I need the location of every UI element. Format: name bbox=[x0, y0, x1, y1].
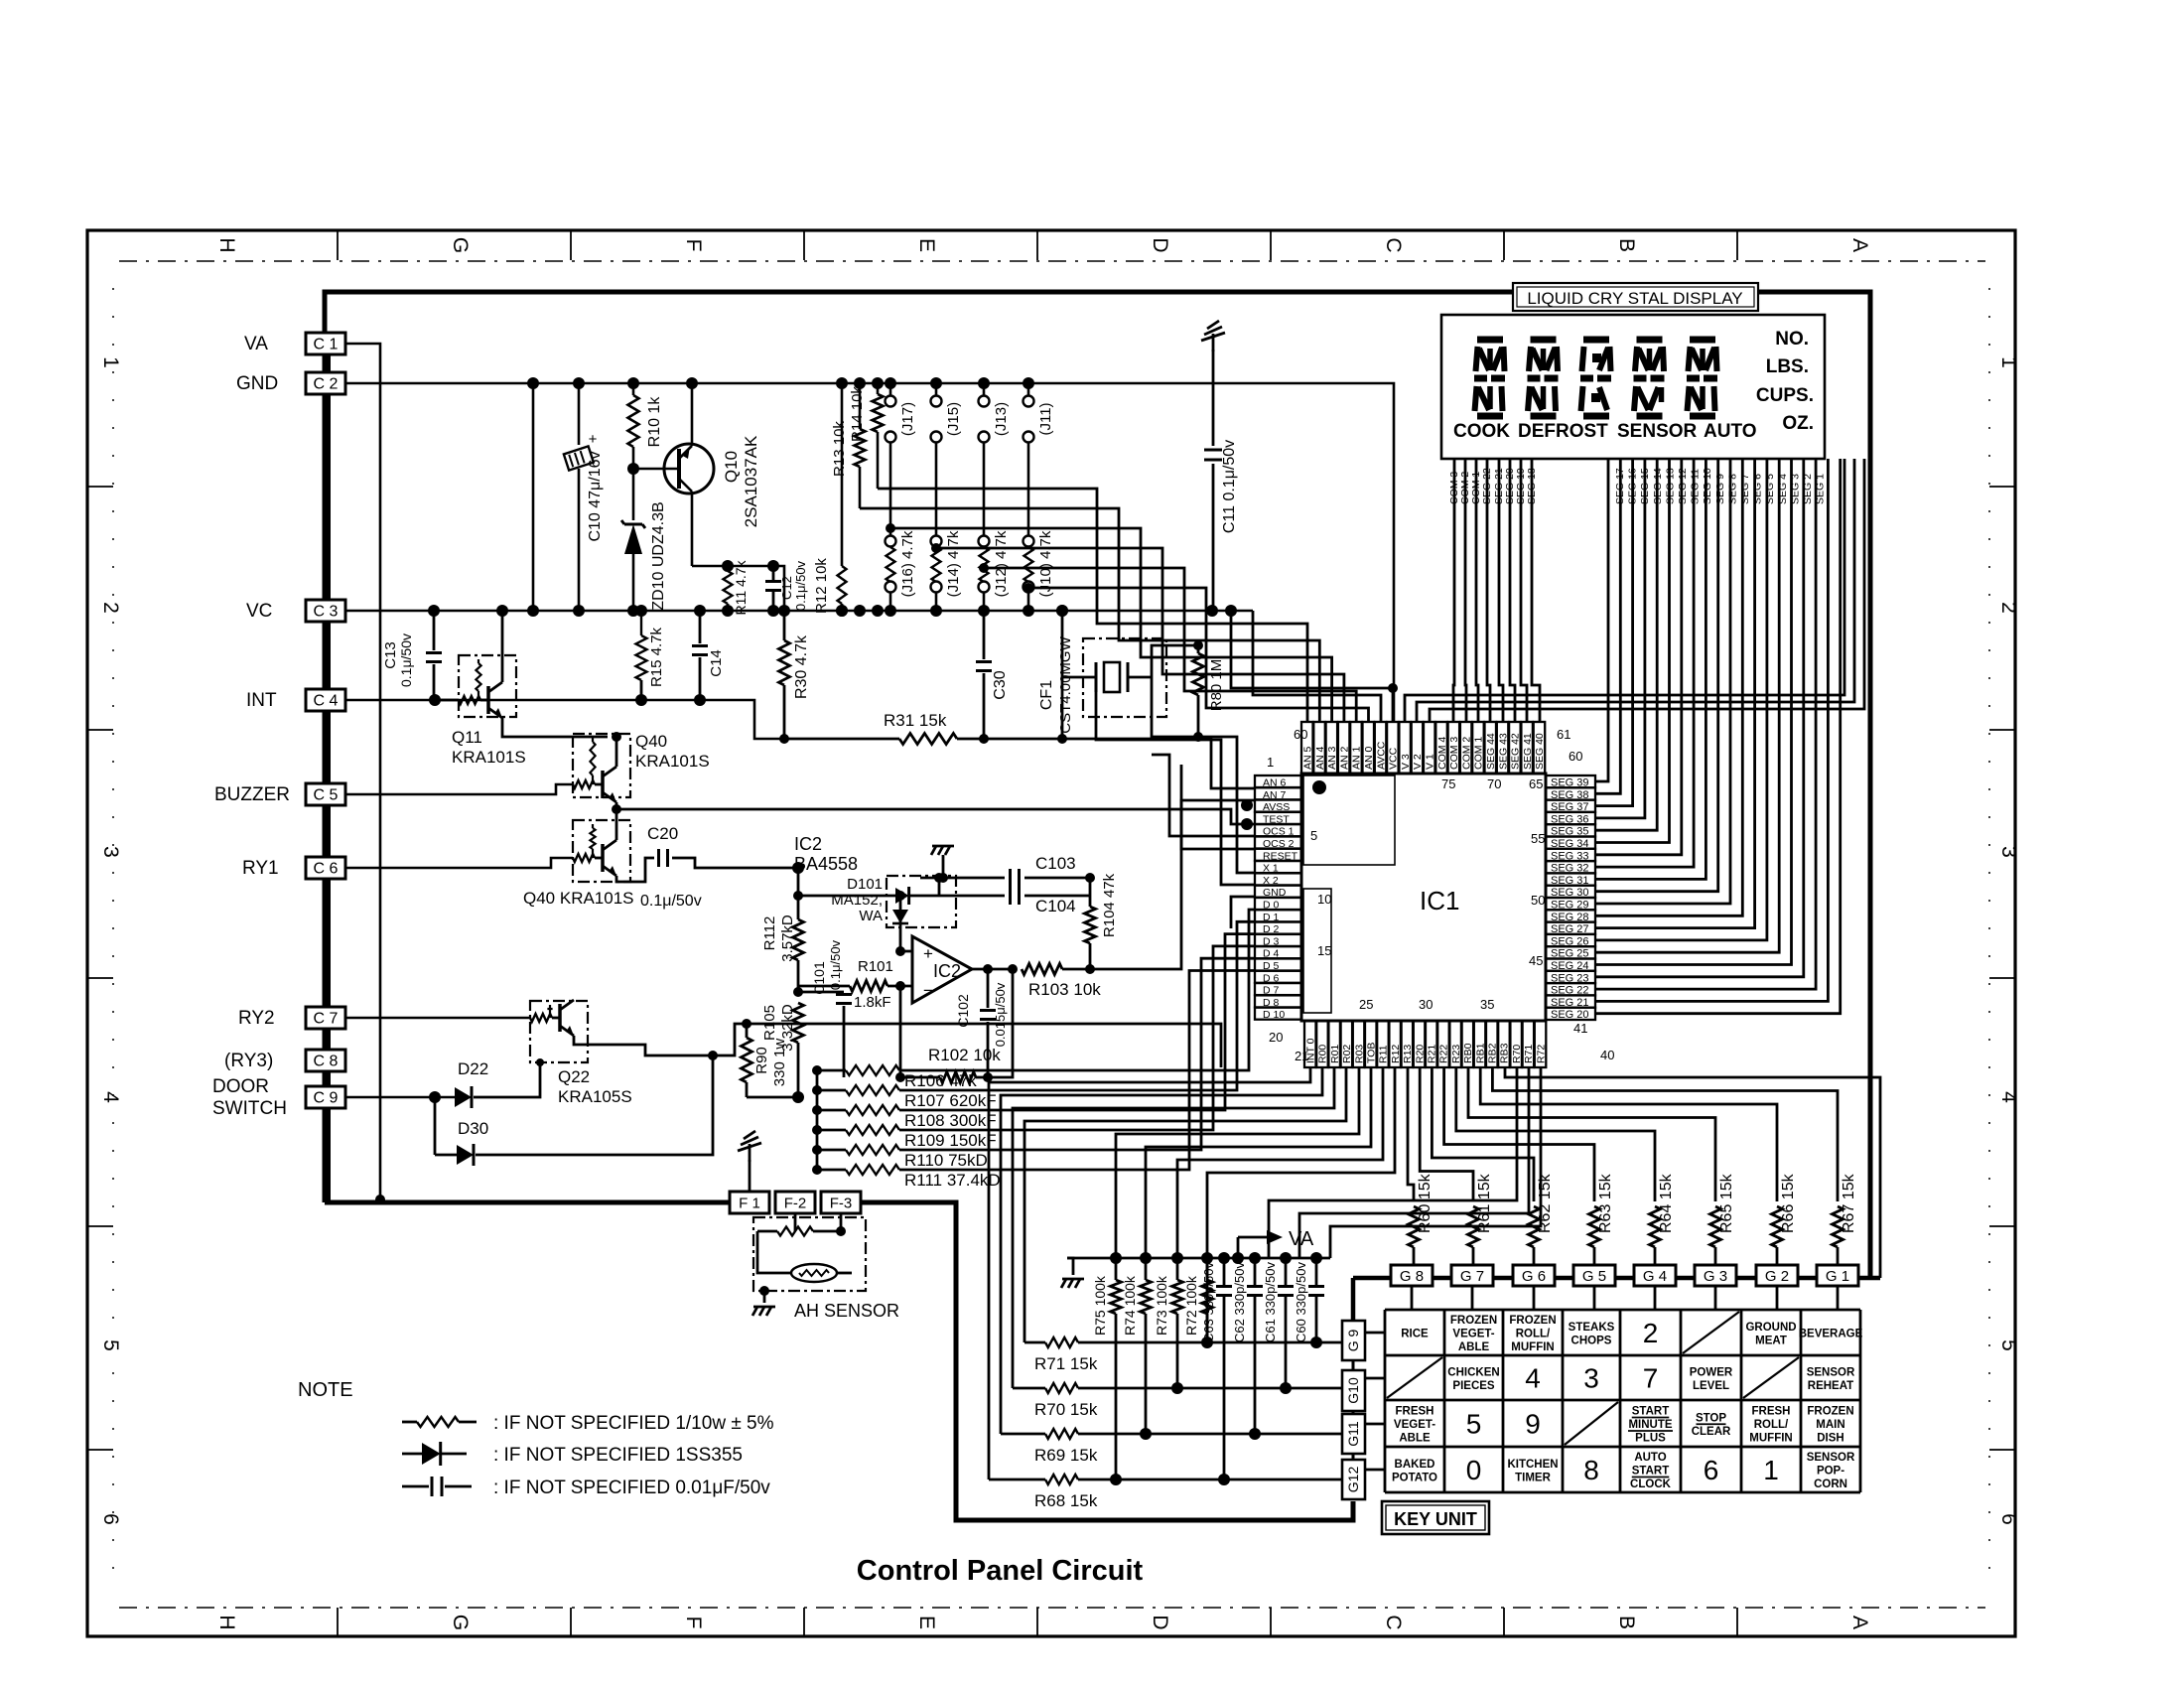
thick bus to key area bbox=[861, 1202, 1353, 1520]
wire VA from C1 bbox=[345, 344, 380, 1199]
svg-text:R106 47k: R106 47k bbox=[904, 1071, 977, 1090]
svg-text:C 7: C 7 bbox=[314, 1011, 339, 1028]
pin SEG 30 bbox=[1546, 886, 1595, 898]
svg-text:D 10: D 10 bbox=[1263, 1009, 1285, 1021]
junction bbox=[686, 377, 698, 389]
junction bbox=[722, 605, 734, 617]
svg-text:: IF NOT SPECIFIED 1/10w ± 5%: : IF NOT SPECIFIED 1/10w ± 5% bbox=[493, 1413, 774, 1434]
svg-text:ROLL/: ROLL/ bbox=[1754, 1419, 1789, 1431]
pin TEST bbox=[1255, 812, 1301, 824]
connector C8 box bbox=[306, 1050, 345, 1071]
svg-text:F: F bbox=[682, 239, 705, 252]
jumper-resistor (J14) 4.7k bbox=[931, 536, 942, 547]
svg-text:C 2: C 2 bbox=[314, 376, 339, 393]
svg-text:CHICKEN: CHICKEN bbox=[1447, 1366, 1499, 1378]
pin INT 0 bbox=[1304, 1021, 1316, 1067]
diode D101 MA152 bbox=[874, 895, 895, 898]
svg-text:SEG 1: SEG 1 bbox=[1815, 474, 1827, 504]
wire IC1 port fan left 6 bbox=[1146, 1067, 1371, 1258]
pin SEG 36 bbox=[1546, 812, 1595, 824]
svg-text:CUPS.: CUPS. bbox=[1756, 385, 1814, 406]
svg-text:C101: C101 bbox=[811, 961, 827, 995]
capacitor C101 bbox=[798, 991, 844, 994]
svg-text:G 3: G 3 bbox=[1704, 1268, 1727, 1285]
svg-text:R109 150kF: R109 150kF bbox=[904, 1131, 997, 1150]
page outer border frame bbox=[87, 230, 2015, 1636]
wire RY2 from C7 bbox=[345, 1017, 530, 1020]
pin R23 bbox=[1449, 1021, 1461, 1067]
zener diode ZD10 UDZ4.3B bbox=[632, 469, 635, 520]
svg-text:C: C bbox=[1382, 1615, 1405, 1629]
svg-text:2: 2 bbox=[99, 602, 122, 614]
svg-text:AH SENSOR: AH SENSOR bbox=[794, 1301, 899, 1321]
pin SEG 31 bbox=[1546, 873, 1595, 885]
svg-text:C62 330p/50v: C62 330p/50v bbox=[1232, 1262, 1247, 1342]
wire IC1 to R63 bbox=[1444, 1067, 1594, 1201]
svg-text:SENSOR: SENSOR bbox=[1807, 1366, 1855, 1378]
svg-text:61: 61 bbox=[1557, 727, 1570, 742]
KEY UNIT label box bbox=[1382, 1501, 1489, 1534]
pin SEG 21 bbox=[1546, 995, 1595, 1007]
svg-text:SEG 2: SEG 2 bbox=[1802, 474, 1814, 504]
svg-text:KITCHEN: KITCHEN bbox=[1507, 1459, 1558, 1471]
svg-text:0.1μ/50v: 0.1μ/50v bbox=[793, 560, 808, 611]
svg-text:SENSOR: SENSOR bbox=[1807, 1452, 1855, 1464]
svg-text:R72: R72 bbox=[1535, 1045, 1547, 1063]
pin dots AVSS TEST bbox=[1241, 799, 1253, 811]
connector C3 box bbox=[306, 600, 345, 622]
svg-text:C 3: C 3 bbox=[314, 604, 339, 621]
resistor R69 15k bbox=[1001, 1433, 1045, 1436]
svg-text:R66 15k: R66 15k bbox=[1780, 1173, 1797, 1233]
grid tick bottom bbox=[803, 1608, 805, 1636]
svg-text:+: + bbox=[923, 944, 933, 963]
svg-text:G 6: G 6 bbox=[1522, 1268, 1546, 1285]
svg-text:Q11: Q11 bbox=[452, 728, 482, 747]
wire R112 node to D101 bbox=[798, 868, 874, 896]
wire D22 to Q22 base node bbox=[474, 1062, 540, 1097]
svg-text:R70 15k: R70 15k bbox=[1034, 1400, 1098, 1419]
connector G 4 bbox=[1634, 1265, 1676, 1286]
wire SEG 27 to LCD bbox=[1595, 459, 1755, 928]
wire D30 right bbox=[476, 1056, 713, 1155]
svg-text:4: 4 bbox=[1525, 1363, 1541, 1394]
svg-text:A: A bbox=[1848, 1616, 1871, 1629]
resistor R90 330 1w bbox=[742, 1019, 751, 1029]
pin SEG 27 bbox=[1546, 922, 1595, 934]
wire SEG 36 to LCD bbox=[1595, 459, 1645, 818]
svg-text:E: E bbox=[915, 1616, 938, 1629]
svg-text:2: 2 bbox=[1643, 1318, 1659, 1348]
svg-text:RB2: RB2 bbox=[1487, 1043, 1499, 1063]
wire LCD SEG 20 bbox=[1510, 459, 1515, 722]
grid tick bottom bbox=[570, 1608, 572, 1636]
svg-text:G11: G11 bbox=[1345, 1421, 1361, 1447]
svg-text:RY1: RY1 bbox=[242, 858, 279, 879]
svg-text:: IF NOT SPECIFIED 1SS355: : IF NOT SPECIFIED 1SS355 bbox=[493, 1445, 743, 1466]
pin V 1 bbox=[1424, 722, 1435, 774]
resistor R31 15k bbox=[782, 738, 899, 741]
transistor Q10 2SA1037AK bbox=[664, 444, 714, 493]
grid tick bottom bbox=[337, 1608, 339, 1636]
pin D 3 bbox=[1255, 934, 1301, 946]
connector C4 box bbox=[306, 689, 345, 711]
wire IC1 port fan left 2 bbox=[1001, 1067, 1322, 1434]
svg-text:2: 2 bbox=[1997, 602, 2020, 614]
grid tick top bbox=[803, 230, 805, 260]
wire X1 bbox=[1151, 736, 1153, 738]
pin AN 3 bbox=[1326, 722, 1338, 774]
ground IC2 bbox=[932, 845, 954, 848]
wire SEG 32 to LCD bbox=[1595, 459, 1694, 867]
svg-text:C: C bbox=[1382, 237, 1405, 252]
svg-text:A: A bbox=[1848, 238, 1871, 252]
svg-text:DISH: DISH bbox=[1817, 1433, 1843, 1445]
resistor R112 3.57kD bbox=[797, 896, 800, 919]
svg-text:R107 620kF: R107 620kF bbox=[904, 1091, 997, 1110]
wire CF1 column bbox=[1061, 611, 1064, 739]
svg-text:R22: R22 bbox=[1438, 1045, 1450, 1063]
jumper-resistor (J10) 4.7k bbox=[1024, 536, 1034, 547]
svg-text:Q40: Q40 bbox=[635, 732, 667, 751]
pin R03 bbox=[1353, 1021, 1365, 1067]
grid tick right bbox=[1989, 1225, 2015, 1227]
pin SEG 22 bbox=[1546, 983, 1595, 995]
svg-text:SEG 9: SEG 9 bbox=[1714, 474, 1726, 504]
pin R70 bbox=[1510, 1021, 1522, 1067]
wire V3 to LCD bbox=[1405, 459, 1844, 722]
svg-text:C12: C12 bbox=[779, 576, 794, 600]
capacitor C61 bbox=[1280, 1252, 1292, 1264]
connector C6 box bbox=[306, 857, 345, 879]
resistor R10 1k bbox=[632, 383, 635, 395]
svg-text:SEG 11: SEG 11 bbox=[1690, 469, 1702, 504]
LCD digit 4 bbox=[1637, 337, 1663, 344]
junction bbox=[1023, 605, 1034, 617]
wire SEG 38 to LCD bbox=[1595, 459, 1620, 793]
pin R02 bbox=[1341, 1021, 1353, 1067]
pin COM 1 bbox=[1472, 722, 1484, 774]
svg-text:1: 1 bbox=[1267, 755, 1274, 770]
svg-text:40: 40 bbox=[1600, 1048, 1614, 1062]
wire IC1 to R61 bbox=[1420, 1067, 1473, 1201]
pin COM 4 bbox=[1435, 722, 1447, 774]
svg-text:D: D bbox=[1149, 237, 1171, 252]
pin AN 4 bbox=[1313, 722, 1325, 774]
wire to G1 right end bbox=[1505, 1067, 1880, 1278]
junction bbox=[885, 605, 896, 617]
svg-text:6: 6 bbox=[1997, 1513, 2020, 1525]
svg-text:C13: C13 bbox=[382, 641, 399, 669]
svg-text:G10: G10 bbox=[1345, 1377, 1361, 1404]
resistor R64 15k bbox=[1650, 1206, 1661, 1247]
resistor R12 10k bbox=[841, 383, 844, 566]
wire GND pin stub bbox=[1231, 897, 1255, 928]
wire IC1 to R65 bbox=[1468, 1067, 1715, 1201]
junction AH gnd bbox=[759, 1286, 769, 1296]
pin SEG 32 bbox=[1546, 861, 1595, 873]
svg-text:VA: VA bbox=[244, 334, 268, 354]
svg-text:ZD10 UDZ4.3B: ZD10 UDZ4.3B bbox=[650, 501, 667, 610]
svg-text:RB0: RB0 bbox=[1462, 1043, 1474, 1063]
svg-text:R112: R112 bbox=[761, 916, 778, 951]
svg-text:R68 15k: R68 15k bbox=[1034, 1491, 1098, 1510]
wire Q40 collector bbox=[615, 737, 618, 767]
svg-text:MA152,: MA152, bbox=[831, 892, 883, 909]
pin AN 5 bbox=[1301, 722, 1313, 774]
svg-text:CF1: CF1 bbox=[1038, 680, 1055, 710]
wire RY1 from C6 bbox=[345, 858, 573, 868]
svg-text:(J12) 4.7k: (J12) 4.7k bbox=[993, 530, 1010, 597]
svg-text:Control Panel Circuit: Control Panel Circuit bbox=[857, 1555, 1144, 1587]
pin D 8 bbox=[1255, 995, 1301, 1007]
wire to R90 bbox=[713, 1024, 747, 1056]
pin R72 bbox=[1535, 1021, 1547, 1067]
junction bbox=[573, 377, 585, 389]
svg-text:SEG 42: SEG 42 bbox=[1510, 733, 1522, 770]
svg-text:Q22: Q22 bbox=[558, 1067, 590, 1086]
pin OCS 2 bbox=[1255, 837, 1301, 849]
svg-text:6: 6 bbox=[99, 1513, 122, 1525]
wire IC1 port fan left 1 bbox=[989, 1067, 1310, 1479]
wire to AN4 pin bbox=[860, 508, 1319, 722]
wire LCD SEG 22 bbox=[1487, 459, 1490, 722]
wire R90 bottom bbox=[747, 1096, 798, 1099]
svg-text:5: 5 bbox=[99, 1339, 122, 1351]
svg-text:R30 4.7k: R30 4.7k bbox=[793, 634, 810, 699]
heater element bbox=[791, 1264, 837, 1282]
junction bbox=[1023, 377, 1034, 389]
wire VCC bbox=[1231, 611, 1393, 722]
svg-text:SEG 18: SEG 18 bbox=[1526, 468, 1538, 504]
svg-text:45: 45 bbox=[1529, 953, 1543, 968]
legend resistor symbol bbox=[402, 1421, 417, 1424]
junction bbox=[854, 605, 866, 617]
pin R71 bbox=[1523, 1021, 1535, 1067]
connector G 6 bbox=[1513, 1265, 1555, 1286]
svg-text:0.1μ/50v: 0.1μ/50v bbox=[398, 633, 414, 687]
grid tick left bbox=[87, 1225, 113, 1227]
svg-text:1: 1 bbox=[1763, 1455, 1779, 1485]
svg-text:30: 30 bbox=[1419, 997, 1433, 1012]
wire G bus left drop bbox=[1351, 1278, 1356, 1321]
svg-text:INT: INT bbox=[246, 690, 277, 711]
svg-text:GND: GND bbox=[236, 373, 278, 394]
connector G 9 bbox=[1342, 1321, 1365, 1360]
wire SEG 23 to LCD bbox=[1595, 459, 1804, 977]
wire crystal leads bbox=[1096, 692, 1255, 885]
svg-text:WA: WA bbox=[859, 908, 883, 924]
svg-text:R12 10k: R12 10k bbox=[813, 558, 830, 614]
svg-text:V 1: V 1 bbox=[1425, 754, 1436, 770]
wire LCD SEG 18 bbox=[1532, 459, 1540, 722]
svg-text:R80 1M: R80 1M bbox=[1208, 659, 1225, 712]
svg-text:C14: C14 bbox=[708, 649, 725, 677]
wire SEG 34 to LCD bbox=[1595, 459, 1670, 843]
junction bbox=[872, 605, 884, 617]
svg-text:R60 15k: R60 15k bbox=[1417, 1173, 1433, 1233]
svg-text:IC2: IC2 bbox=[933, 961, 961, 981]
wire F-3 down bbox=[840, 1213, 843, 1231]
svg-text:G 8: G 8 bbox=[1400, 1268, 1424, 1285]
svg-text:4: 4 bbox=[99, 1091, 122, 1103]
svg-text:(J15): (J15) bbox=[945, 402, 962, 436]
grid tick bottom bbox=[1503, 1608, 1505, 1636]
pin SEG 43 bbox=[1497, 722, 1509, 774]
wire LCD COM 3 bbox=[1453, 459, 1454, 722]
svg-text:R13: R13 bbox=[1402, 1045, 1414, 1063]
wire SEG 20 to LCD bbox=[1595, 459, 1841, 1014]
pin D 5 bbox=[1255, 959, 1301, 971]
svg-text:5: 5 bbox=[1310, 828, 1317, 843]
svg-text:C104: C104 bbox=[1035, 897, 1076, 915]
wire SEG 37 to LCD bbox=[1595, 459, 1633, 806]
pin SEG 42 bbox=[1509, 722, 1521, 774]
wire LCD COM 2 bbox=[1465, 459, 1466, 722]
capacitor C12 bbox=[772, 566, 775, 580]
svg-text:AN 0: AN 0 bbox=[1363, 746, 1375, 770]
connector F1 bbox=[730, 1192, 769, 1213]
capacitor C102 bbox=[987, 969, 990, 1008]
wire INT from C4 bbox=[345, 700, 782, 739]
svg-text:65: 65 bbox=[1529, 776, 1543, 791]
svg-text:MINUTE: MINUTE bbox=[1628, 1419, 1672, 1431]
wire SEG 31 to LCD bbox=[1595, 459, 1706, 879]
junction bbox=[978, 377, 990, 389]
junction bbox=[836, 605, 848, 617]
resistor R14 10k bbox=[877, 383, 880, 394]
svg-text:SEG 13: SEG 13 bbox=[1664, 468, 1676, 504]
svg-text:R20: R20 bbox=[1414, 1045, 1426, 1063]
pin R12 bbox=[1389, 1021, 1401, 1067]
wire F-2 down bbox=[794, 1213, 797, 1231]
grid tick bottom bbox=[1736, 1608, 1738, 1636]
svg-text:ROLL/: ROLL/ bbox=[1516, 1329, 1551, 1340]
wire Q40 emitter to AN line bbox=[616, 802, 1255, 824]
LCD digit 1 bbox=[1477, 337, 1503, 344]
svg-text:R13 10k: R13 10k bbox=[831, 421, 848, 477]
pin RESET bbox=[1255, 849, 1301, 861]
svg-text:H: H bbox=[215, 237, 238, 252]
junction bbox=[527, 605, 539, 617]
thermistor bbox=[777, 1227, 813, 1236]
svg-text:R102 10k: R102 10k bbox=[928, 1046, 1001, 1064]
svg-text:AVCC: AVCC bbox=[1375, 741, 1387, 770]
svg-text:G: G bbox=[449, 1615, 472, 1630]
ground above F1 bbox=[749, 1144, 751, 1162]
grid tick top bbox=[570, 230, 572, 260]
capacitor C11 bbox=[1212, 350, 1215, 446]
junction bbox=[930, 377, 942, 389]
key blank diagonal bbox=[1683, 1312, 1739, 1353]
svg-text:10: 10 bbox=[1317, 892, 1331, 907]
svg-text:55: 55 bbox=[1531, 831, 1545, 846]
wire to D30 bbox=[434, 1097, 437, 1155]
svg-text:3: 3 bbox=[1997, 846, 2020, 858]
jumper (J15) bbox=[935, 383, 938, 395]
junction bbox=[694, 605, 706, 617]
svg-text:3.32kD: 3.32kD bbox=[779, 1004, 796, 1052]
grid tick right bbox=[1989, 486, 2015, 488]
svg-text:FRESH: FRESH bbox=[1396, 1406, 1434, 1418]
resistor R61 15k bbox=[1468, 1206, 1479, 1247]
svg-text:: IF NOT SPECIFIED 0.01μF/50v: : IF NOT SPECIFIED 0.01μF/50v bbox=[493, 1478, 770, 1498]
resistor R80 1M bbox=[1193, 640, 1203, 650]
svg-text:R12: R12 bbox=[1390, 1045, 1402, 1063]
svg-text:CST4.00MGW: CST4.00MGW bbox=[1057, 635, 1074, 733]
resistor R75 100k bbox=[1110, 1252, 1122, 1264]
wire IC1 to R60 bbox=[1408, 1067, 1414, 1201]
pin SEG 34 bbox=[1546, 837, 1595, 849]
wire IC1 port fan left 4 bbox=[1024, 1067, 1346, 1342]
pin SEG 44 bbox=[1485, 722, 1497, 774]
svg-text:R90: R90 bbox=[753, 1047, 770, 1074]
resistor R109 bbox=[812, 1125, 822, 1135]
svg-text:SEG 44: SEG 44 bbox=[1485, 733, 1497, 770]
wire Q22 emitter bbox=[587, 1045, 713, 1056]
svg-text:0.1μ/50v: 0.1μ/50v bbox=[640, 893, 702, 910]
resistor R67 15k bbox=[1833, 1206, 1843, 1247]
svg-text:3: 3 bbox=[1583, 1363, 1599, 1394]
wires G boxes to key table bbox=[1411, 1286, 1414, 1310]
jumper (J11) bbox=[1027, 383, 1030, 395]
svg-text:G 7: G 7 bbox=[1460, 1268, 1484, 1285]
wire to AN2 pin bbox=[936, 548, 1344, 722]
svg-text:POTATO: POTATO bbox=[1392, 1472, 1437, 1483]
pin SEG 40 bbox=[1534, 722, 1546, 774]
svg-text:COM 2: COM 2 bbox=[1460, 737, 1472, 770]
svg-text:0.015μ/50v: 0.015μ/50v bbox=[993, 982, 1008, 1047]
resistor R74 100k bbox=[1140, 1252, 1152, 1264]
svg-text:COM 4: COM 4 bbox=[1436, 737, 1448, 770]
svg-text:FROZEN: FROZEN bbox=[1450, 1315, 1497, 1327]
wire SEG 29 to LCD bbox=[1595, 459, 1730, 904]
pin SEG 26 bbox=[1546, 934, 1595, 946]
svg-text:G: G bbox=[449, 237, 472, 253]
svg-text:R10 1k: R10 1k bbox=[646, 396, 663, 448]
wire SEG 21 to LCD bbox=[1595, 459, 1828, 1001]
svg-text:START: START bbox=[1632, 1406, 1669, 1418]
svg-text:LEVEL: LEVEL bbox=[1693, 1380, 1729, 1392]
svg-text:8: 8 bbox=[1583, 1455, 1599, 1485]
svg-text:DEFROST: DEFROST bbox=[1518, 421, 1608, 442]
thick key bus bbox=[1353, 1276, 1880, 1281]
wire to AN5 pin bbox=[878, 489, 1307, 722]
svg-text:CORN: CORN bbox=[1814, 1478, 1847, 1490]
pin RB3 bbox=[1498, 1021, 1510, 1067]
pin AN 2 bbox=[1338, 722, 1350, 774]
svg-text:PLUS: PLUS bbox=[1635, 1433, 1666, 1445]
resistor R106 bbox=[812, 1065, 822, 1075]
key blank diagonal bbox=[1743, 1357, 1799, 1398]
svg-text:70: 70 bbox=[1487, 776, 1501, 791]
jumper-resistor (J12) 4.7k bbox=[979, 536, 990, 547]
svg-text:R64 15k: R64 15k bbox=[1658, 1173, 1675, 1233]
svg-text:R74 100k: R74 100k bbox=[1122, 1275, 1138, 1336]
svg-text:VEGET-: VEGET- bbox=[1452, 1329, 1494, 1340]
grid tick top bbox=[1503, 230, 1505, 260]
pin RB0 bbox=[1462, 1021, 1474, 1067]
svg-text:B: B bbox=[1615, 1616, 1638, 1629]
svg-text:AN 3: AN 3 bbox=[1326, 746, 1338, 770]
grid tick left bbox=[87, 729, 113, 731]
LCD digit 3 bbox=[1583, 337, 1609, 344]
svg-text:C102: C102 bbox=[955, 994, 971, 1028]
resonator CF1 CST4.00MGW bbox=[1083, 638, 1166, 717]
AH sensor box bbox=[753, 1217, 866, 1291]
svg-text:KEY UNIT: KEY UNIT bbox=[1394, 1509, 1477, 1529]
svg-text:75: 75 bbox=[1441, 776, 1455, 791]
